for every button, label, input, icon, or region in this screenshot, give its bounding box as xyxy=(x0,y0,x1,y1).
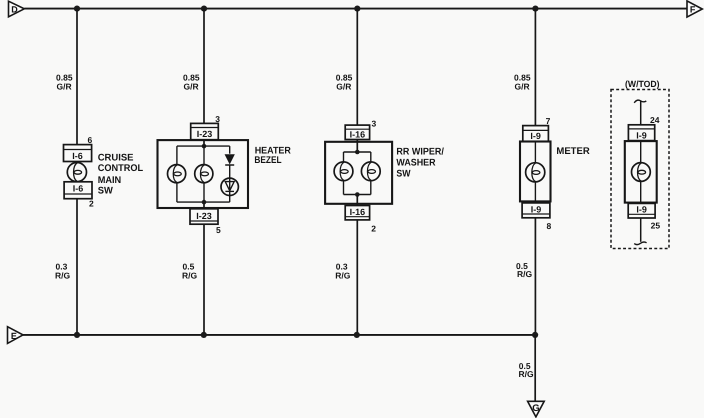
svg-text:3: 3 xyxy=(372,119,377,129)
svg-text:BEZEL: BEZEL xyxy=(254,155,281,166)
svg-text:I-16: I-16 xyxy=(350,130,366,140)
connector arrow D xyxy=(9,1,25,17)
svg-text:3: 3 xyxy=(215,114,220,124)
node: heater inner top junction xyxy=(202,144,207,149)
svg-text:SW: SW xyxy=(396,168,411,179)
wire: wiper to bottom bus xyxy=(356,220,358,335)
svg-text:D: D xyxy=(11,5,18,15)
wire: meter inner bottom xyxy=(534,182,536,203)
wire: heater exit stub xyxy=(203,202,205,209)
lamp: meter illumination bulb xyxy=(526,163,545,182)
wire label 0.85 G/R (heater) xyxy=(183,72,200,91)
wire: diode through LED to bottom bus xyxy=(229,165,231,202)
wire continuation squiggle (top) xyxy=(634,100,646,103)
diode (filled) heater bezel xyxy=(225,155,234,164)
wire label 0.85 G/R (wiper) xyxy=(336,72,353,91)
wire: wiper entry stub xyxy=(356,140,358,153)
lamp: cruise control illumination bulb xyxy=(67,163,86,182)
svg-text:7: 7 xyxy=(546,116,551,126)
connector I-16 bottom (wiper) xyxy=(345,206,369,220)
ground arrow G xyxy=(528,401,545,417)
svg-text:R/G: R/G xyxy=(182,271,198,281)
wire: heater to bottom bus xyxy=(203,224,205,335)
wire: connector 25 to squiggle xyxy=(640,218,642,242)
component box: heater bezel xyxy=(158,140,249,208)
svg-text:SW: SW xyxy=(98,186,114,197)
svg-text:R/G: R/G xyxy=(335,271,351,281)
node: bottom junction heater xyxy=(201,332,207,338)
node: bottom junction wiper xyxy=(354,332,360,338)
wire: wtod inner bottom xyxy=(640,181,642,203)
node: bottom junction meter xyxy=(532,332,538,338)
node: top junction cruise xyxy=(74,6,80,12)
wire: heater left branch top xyxy=(176,146,178,165)
node: wiper inner top junction xyxy=(355,150,360,155)
svg-text:G/R: G/R xyxy=(57,81,72,91)
svg-text:F: F xyxy=(690,5,696,15)
svg-text:24: 24 xyxy=(650,115,660,125)
lamp: wtod illumination bulb xyxy=(632,163,651,182)
connector I-6 top (cruise) xyxy=(64,145,92,162)
dashed option box W/TOD xyxy=(611,90,669,249)
wire: wiper left branch top xyxy=(343,152,345,162)
node: bottom junction cruise xyxy=(74,332,80,338)
wire label 0.85 G/R (cruise) xyxy=(56,72,73,91)
wire label 0.5 R/G (heater) xyxy=(182,262,198,281)
svg-text:METER: METER xyxy=(556,146,589,157)
connector I-9 bottom (meter) xyxy=(522,203,550,218)
svg-text:G/R: G/R xyxy=(515,81,530,91)
wire: heater right branch top xyxy=(229,146,231,154)
connector I-6 bottom (cruise) xyxy=(64,182,92,199)
svg-text:I-6: I-6 xyxy=(73,184,84,194)
wire: bus to cruise control xyxy=(76,9,78,145)
wire: wiper right branch bottom xyxy=(370,181,372,195)
svg-text:2: 2 xyxy=(89,199,94,209)
lamp: wiper bulb 1 xyxy=(334,162,353,181)
wire: wiper inner bottom bus xyxy=(344,194,371,196)
wire label 0.5 R/G (meter upper) xyxy=(516,261,533,279)
wire: bus to rr wiper xyxy=(356,9,358,126)
svg-text:E: E xyxy=(11,331,17,341)
wire: bus to heater bezel xyxy=(203,9,205,124)
svg-text:(W/TOD): (W/TOD) xyxy=(625,79,660,89)
bottom bus wire E to ground junction xyxy=(23,334,535,336)
svg-text:RR WIPER/: RR WIPER/ xyxy=(396,147,444,158)
wire: wiper exit stub xyxy=(356,195,358,206)
connector I-16 top (wiper) xyxy=(345,125,369,140)
component box: wtod lamp unit xyxy=(625,141,657,203)
wire: cruise to bottom bus xyxy=(76,199,78,335)
label: HEATER BEZEL xyxy=(254,145,291,166)
wire: wiper right branch top xyxy=(370,152,372,162)
wire: junction to ground G xyxy=(534,335,536,402)
connector I-9 top (meter) xyxy=(523,126,549,142)
svg-text:I-16: I-16 xyxy=(350,207,366,217)
svg-text:MAIN: MAIN xyxy=(98,175,122,186)
svg-text:I-9: I-9 xyxy=(530,131,541,141)
wire: heater mid branch bottom xyxy=(203,183,205,202)
wire: bus to meter xyxy=(534,9,536,126)
svg-text:5: 5 xyxy=(216,225,221,235)
wire: wiper left branch bottom xyxy=(343,181,345,195)
wire: heater left branch bottom xyxy=(176,183,178,202)
wire: heater inner top bus xyxy=(177,145,230,147)
label: CRUISE CONTROL MAIN SW xyxy=(98,152,143,196)
svg-text:WASHER: WASHER xyxy=(396,158,435,169)
wire label 0.3 R/G (cruise) xyxy=(55,262,71,281)
connector I-23 bottom (heater) xyxy=(190,209,218,224)
wire label 0.3 R/G (wiper) xyxy=(335,262,351,281)
svg-text:I-23: I-23 xyxy=(196,211,212,221)
svg-text:I-9: I-9 xyxy=(531,204,542,214)
connector I-9 top (wtod) xyxy=(628,125,654,141)
wire: wtod inner top xyxy=(640,141,642,163)
component box: rr wiper/washer sw xyxy=(325,142,392,204)
svg-text:R/G: R/G xyxy=(519,369,535,379)
wire label 0.85 G/R (meter) xyxy=(514,72,531,91)
wire: meter inner top xyxy=(534,142,536,163)
wire: heater inner bottom bus xyxy=(177,201,230,203)
component box: meter xyxy=(520,142,551,202)
svg-text:CRUISE: CRUISE xyxy=(98,152,134,163)
svg-text:I-23: I-23 xyxy=(197,129,213,139)
connector arrow E xyxy=(8,327,24,344)
wire label 0.5 R/G (ground) xyxy=(519,361,535,379)
svg-text:R/G: R/G xyxy=(55,271,71,281)
node: top junction meter xyxy=(532,6,538,12)
node: top junction wiper xyxy=(354,6,360,12)
connector arrow F xyxy=(687,1,702,17)
top bus wire D to F xyxy=(24,8,687,10)
lamp: wiper bulb 2 xyxy=(361,162,380,181)
svg-text:G/R: G/R xyxy=(184,81,199,91)
label: RR WIPER/ WASHER SW xyxy=(396,147,444,180)
svg-text:2: 2 xyxy=(371,224,376,234)
svg-text:CONTROL: CONTROL xyxy=(98,163,143,174)
lamp: heater bezel bulb 1 xyxy=(168,165,186,183)
diode cathode bar xyxy=(225,164,234,166)
wire: heater mid branch top xyxy=(203,146,205,165)
LED indicator (diode in circle) heater bezel xyxy=(221,178,238,195)
connector I-9 bottom (wtod) xyxy=(628,203,655,218)
svg-text:R/G: R/G xyxy=(517,269,533,279)
svg-text:I-9: I-9 xyxy=(636,205,647,215)
svg-text:25: 25 xyxy=(651,221,661,231)
wire continuation squiggle (bottom) xyxy=(634,242,646,245)
svg-text:I-9: I-9 xyxy=(636,130,647,140)
connector I-23 top (heater) xyxy=(191,123,219,139)
wire: squiggle to connector 24 xyxy=(640,101,642,125)
node: top junction heater xyxy=(201,6,207,12)
svg-text:I-6: I-6 xyxy=(72,151,83,161)
wire: heater entry stub xyxy=(203,140,205,146)
svg-text:G/R: G/R xyxy=(336,81,351,91)
svg-text:8: 8 xyxy=(547,221,552,231)
svg-text:6: 6 xyxy=(88,135,93,145)
node: heater inner bottom junction xyxy=(202,200,207,205)
lamp: heater bezel bulb 2 xyxy=(195,165,213,183)
svg-text:G: G xyxy=(532,403,539,414)
wire: meter to bottom bus xyxy=(534,218,536,335)
wire: wiper inner top bus xyxy=(344,151,371,153)
node: wiper inner bottom junction xyxy=(355,192,360,197)
